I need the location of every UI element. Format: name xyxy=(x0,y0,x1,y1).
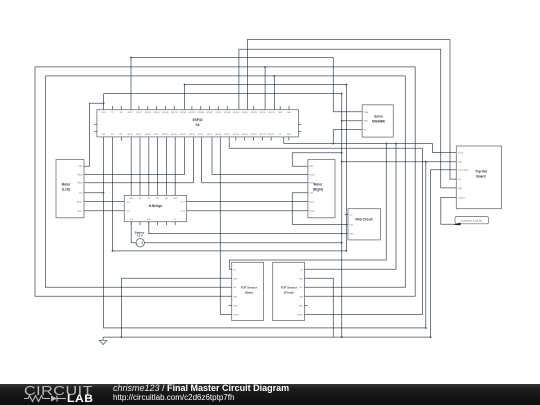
svg-text:GPIO: GPIO xyxy=(233,305,238,307)
svg-text:GPIO: GPIO xyxy=(299,305,304,307)
svg-text:Out: Out xyxy=(350,214,353,217)
svg-text:5V0: 5V0 xyxy=(111,134,114,136)
svg-text:Vin: Vin xyxy=(233,269,236,271)
svg-text:XSHUT: XSHUT xyxy=(297,314,304,316)
svg-text:GPIO6: GPIO6 xyxy=(145,134,151,136)
svg-text:GPIO48: GPIO48 xyxy=(233,112,240,114)
svg-text:ENCB: ENCB xyxy=(78,183,84,185)
svg-text:To Button: To Button xyxy=(458,197,466,200)
svg-text:GPIO20: GPIO20 xyxy=(259,112,266,114)
svg-text:Top Hat: Top Hat xyxy=(475,170,488,174)
svg-text:H-Bridge: H-Bridge xyxy=(149,204,163,208)
svg-text:GPIO11: GPIO11 xyxy=(242,134,248,136)
svg-text:ENCB: ENCB xyxy=(309,174,315,176)
svg-text:GPIO10: GPIO10 xyxy=(233,134,240,136)
svg-text:VHS Circuit: VHS Circuit xyxy=(355,217,373,221)
svg-text:GND: GND xyxy=(233,278,238,280)
svg-text:GPIO5: GPIO5 xyxy=(136,134,142,136)
svg-text:GND: GND xyxy=(79,166,84,168)
svg-text:GPIO15: GPIO15 xyxy=(162,134,169,136)
svg-text:GPIO45: GPIO45 xyxy=(224,112,231,114)
svg-text:Motor: Motor xyxy=(62,182,72,186)
svg-text:GPIO1: GPIO1 xyxy=(127,112,133,114)
svg-text:TOF Sensor: TOF Sensor xyxy=(281,285,298,289)
svg-text:(Side): (Side) xyxy=(245,290,253,294)
svg-text:GND: GND xyxy=(299,278,304,280)
svg-text:GND: GND xyxy=(278,112,283,114)
svg-text:GND: GND xyxy=(350,234,355,236)
svg-text:GND: GND xyxy=(147,219,152,221)
svg-text:XSHUT: XSHUT xyxy=(233,314,240,316)
svg-text:IN1: IN1 xyxy=(139,198,142,200)
svg-text:SCL: SCL xyxy=(233,287,237,289)
svg-text:GPIO42: GPIO42 xyxy=(145,112,152,114)
svg-text:(Left): (Left) xyxy=(62,187,70,191)
svg-text:Motor-: Motor- xyxy=(309,201,315,204)
svg-text:GPIO3: GPIO3 xyxy=(207,134,213,136)
svg-text:Board: Board xyxy=(476,175,485,179)
svg-text:Motor-: Motor- xyxy=(77,210,83,213)
svg-text:GPIO39: GPIO39 xyxy=(171,112,178,114)
svg-text:GND: GND xyxy=(173,198,178,200)
svg-text:GPIO18: GPIO18 xyxy=(188,134,195,136)
svg-text:Servo: Servo xyxy=(374,115,383,119)
svg-text:GPIO47: GPIO47 xyxy=(242,112,249,114)
svg-text:Motor+: Motor+ xyxy=(77,201,83,204)
svg-text:(Right): (Right) xyxy=(313,187,323,191)
svg-text:GPIO14: GPIO14 xyxy=(268,134,275,136)
svg-text:12 V: 12 V xyxy=(137,234,143,238)
svg-text:GPIO21: GPIO21 xyxy=(250,112,257,114)
svg-text:GPIO19: GPIO19 xyxy=(268,112,275,114)
svg-text:To Whisker & Top Hat: To Whisker & Top Hat xyxy=(461,220,482,223)
svg-text:GND: GND xyxy=(102,112,107,114)
svg-text:GPIO37: GPIO37 xyxy=(189,112,196,114)
svg-text:GPIO46: GPIO46 xyxy=(215,134,222,136)
svg-text:GPIO41: GPIO41 xyxy=(153,112,160,114)
svg-text:IN2: IN2 xyxy=(147,198,150,200)
svg-text:Motor+: Motor+ xyxy=(309,210,315,213)
svg-text:SCL: SCL xyxy=(300,287,304,289)
svg-text:GPIO7: GPIO7 xyxy=(154,134,160,136)
svg-text:Motor: Motor xyxy=(314,182,324,186)
svg-text:GPIO4: GPIO4 xyxy=(127,134,133,136)
svg-text:ENCA: ENCA xyxy=(309,182,315,185)
svg-text:IN4: IN4 xyxy=(165,198,168,200)
svg-text:IN3: IN3 xyxy=(156,198,159,200)
svg-text:GPIO17: GPIO17 xyxy=(180,134,187,136)
svg-text:ESP32: ESP32 xyxy=(193,118,203,122)
svg-text:GND: GND xyxy=(287,112,292,114)
svg-text:Out 1: Out 1 xyxy=(126,201,130,204)
svg-text:Out 2: Out 2 xyxy=(126,210,130,213)
svg-text:GPIO38: GPIO38 xyxy=(180,112,187,114)
svg-text:ENCA: ENCA xyxy=(78,173,84,176)
svg-text:GND: GND xyxy=(364,121,369,123)
svg-text:GPIO0: GPIO0 xyxy=(216,112,222,114)
svg-text:3.3-5V: 3.3-5V xyxy=(458,153,464,155)
svg-text:SCL: SCL xyxy=(458,179,462,181)
svg-text:TOF Sensor: TOF Sensor xyxy=(241,285,258,289)
svg-text:MG996R: MG996R xyxy=(372,120,385,124)
svg-text:GND: GND xyxy=(309,166,314,168)
svg-text:GPIO36: GPIO36 xyxy=(197,112,204,114)
svg-text:GND: GND xyxy=(458,162,463,164)
svg-text:PWM: PWM xyxy=(364,112,369,114)
svg-text:Logic Voltage: Logic Voltage xyxy=(458,169,469,172)
svg-text:Out 3: Out 3 xyxy=(181,201,185,204)
svg-text:GND: GND xyxy=(129,198,134,200)
svg-text:GND: GND xyxy=(287,134,292,136)
svg-text:GPIO12: GPIO12 xyxy=(250,134,257,136)
svg-text:GPIO9: GPIO9 xyxy=(224,134,230,136)
svg-text:GPIO2: GPIO2 xyxy=(136,112,142,114)
svg-text:S3: S3 xyxy=(196,123,200,127)
svg-text:GPIO40: GPIO40 xyxy=(162,112,169,114)
svg-text:Vin: Vin xyxy=(300,269,303,271)
svg-text:Out 4: Out 4 xyxy=(181,210,185,213)
svg-text:3V3: 3V3 xyxy=(102,134,105,136)
svg-text:GPIO16: GPIO16 xyxy=(171,134,178,136)
svg-text:GPIO8: GPIO8 xyxy=(198,134,204,136)
svg-text:GPIO35: GPIO35 xyxy=(206,112,213,114)
svg-text:GPIO13: GPIO13 xyxy=(259,134,266,136)
svg-text:(Front): (Front) xyxy=(284,290,293,294)
